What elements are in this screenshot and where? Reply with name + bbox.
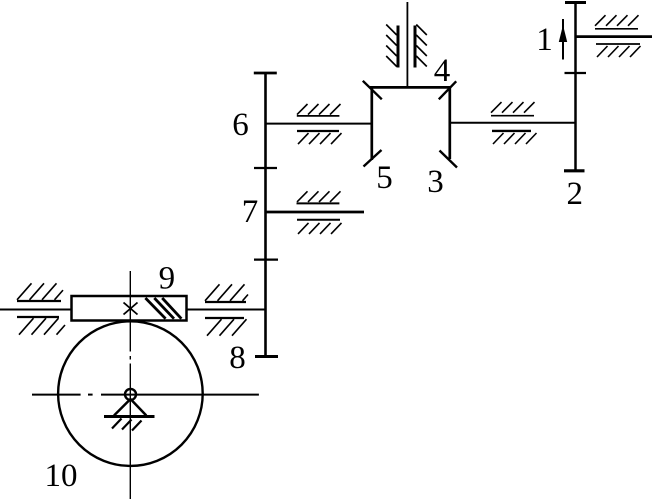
- bevel gear 5: [370, 87, 373, 160]
- support hatch: [112, 419, 142, 431]
- bevel gear 4: [370, 86, 451, 89]
- svg-text:9: 9: [159, 261, 176, 297]
- vertical shaft of bevel gear 4: [406, 2, 408, 87]
- fixed support triangle: [114, 399, 146, 416]
- gear 1: [565, 3, 586, 74]
- mesh tick gears 1-2: [565, 72, 587, 74]
- worm shaft left segment: [0, 309, 72, 311]
- left bearing of worm shaft: [17, 283, 65, 334]
- shaft of gear 7: [266, 211, 365, 214]
- right bearing of worm shaft: [205, 284, 248, 335]
- svg-text:2: 2: [567, 176, 584, 212]
- shaft of gear 2 and bevel gear 3: [450, 122, 576, 124]
- bearing of shaft 5-6: [297, 104, 342, 144]
- worm 9 body: [72, 296, 187, 321]
- tooth mark bevel 3 bottom: [440, 151, 458, 168]
- fixed wall bearing of vertical shaft: [386, 25, 427, 68]
- pivot pin of wheel: [125, 389, 136, 400]
- svg-text:4: 4: [434, 53, 451, 89]
- bevel gear 3: [448, 87, 451, 159]
- svg-text:8: 8: [229, 340, 246, 376]
- gear 8: [255, 260, 278, 357]
- tooth mark bevel 5 bottom: [364, 150, 382, 167]
- svg-text:7: 7: [242, 194, 259, 230]
- worm wheel 10: [58, 321, 203, 466]
- vertical centerline of worm and wheel: [129, 271, 131, 499]
- horizontal centerline of wheel axis: [32, 394, 259, 396]
- svg-text:3: 3: [427, 164, 444, 200]
- bearing of shaft 7: [297, 191, 342, 234]
- support ground line: [104, 415, 155, 418]
- svg-text:1: 1: [536, 22, 553, 58]
- bearing of input shaft (right top): [595, 15, 641, 57]
- shaft of gear 1 (input shaft): [576, 35, 653, 38]
- svg-text:5: 5: [376, 160, 393, 196]
- shaft of bevel gear 5 and gear 6: [266, 123, 372, 125]
- gear 7: [264, 168, 267, 260]
- worm shaft right segment: [187, 309, 266, 311]
- mesh tick gears 6-7: [254, 167, 277, 169]
- bearing of shaft 2-3: [491, 102, 537, 144]
- gear 2: [564, 73, 585, 171]
- svg-text:10: 10: [45, 458, 78, 494]
- gear 6: [254, 73, 277, 168]
- svg-text:6: 6: [232, 107, 249, 143]
- input direction arrow: [559, 19, 567, 60]
- mesh mark bevel 4-5 (top left corner): [363, 81, 382, 100]
- worm 9 thread hatch: [145, 298, 181, 319]
- mesh tick gears 7-8: [254, 259, 278, 261]
- mesh mark bevel 4-3 (top right corner): [439, 81, 456, 99]
- worm 9 cross mark: [124, 303, 138, 315]
